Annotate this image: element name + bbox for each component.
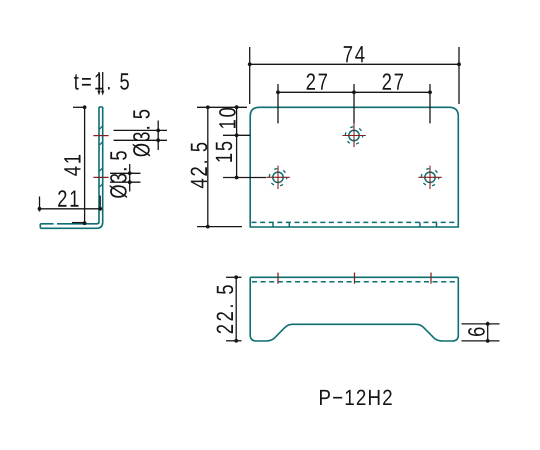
dimension 6 text bbox=[468, 328, 485, 337]
part number label P-12H2 bbox=[320, 390, 392, 405]
dimension t=1.5 text bbox=[74, 73, 129, 89]
side view: red center tick of upper hole bbox=[93, 135, 108, 137]
front view: bend relief stubs bbox=[273, 222, 437, 227]
dimension 74 text bbox=[344, 46, 365, 62]
dimension 41 bbox=[72, 105, 87, 225]
dimension 41 text bbox=[64, 155, 80, 176]
dimension 21 bbox=[38, 196, 103, 212]
dimension 27 right text bbox=[383, 73, 403, 89]
front view: plate outline bbox=[250, 107, 458, 227]
bottom view: outline bbox=[250, 277, 458, 341]
dimension 27 left text bbox=[307, 73, 327, 89]
hole H1 left bbox=[266, 166, 289, 189]
side view: hidden dash marks of upper hole bbox=[100, 126, 103, 145]
hole H2 center bbox=[342, 124, 365, 148]
hole H3 right bbox=[418, 166, 441, 189]
dimension 42.5 bbox=[197, 105, 247, 228]
side view: L-bracket outline bbox=[40, 107, 102, 228]
dimension 15 text bbox=[216, 142, 232, 162]
dimension phi3.5 lower text bbox=[110, 151, 127, 198]
bottom view: hidden bend line bbox=[252, 281, 457, 283]
dimension phi3.5 upper bbox=[114, 121, 168, 151]
dimension 27 27 bbox=[276, 84, 432, 124]
bottom view: red center tick right hole bbox=[430, 273, 432, 284]
dimension phi3.5 lower bbox=[110, 164, 141, 192]
dimension 15 10 bbox=[223, 105, 266, 179]
dimension 22.5 text bbox=[217, 285, 234, 333]
dimension t=1.5 arrows bbox=[97, 72, 104, 96]
side view: red center tick of lower hole bbox=[93, 176, 108, 178]
side view: hidden-line gap in leg top bbox=[54, 223, 57, 225]
bottom view: red center tick middle hole bbox=[354, 273, 356, 284]
dimension 6 bbox=[462, 322, 500, 343]
dimension 22.5 bbox=[226, 275, 242, 342]
bottom view: red center tick left hole bbox=[277, 273, 279, 284]
side view: hidden dash marks of lower hole bbox=[100, 168, 103, 187]
dimension 74 bbox=[248, 47, 461, 104]
dimension 21 text bbox=[58, 190, 78, 206]
dimension 42.5 text bbox=[191, 143, 208, 188]
dimension phi3.5 upper text bbox=[133, 110, 150, 157]
front view: hidden bend line bbox=[252, 221, 458, 223]
dimension 10 text bbox=[219, 108, 236, 128]
